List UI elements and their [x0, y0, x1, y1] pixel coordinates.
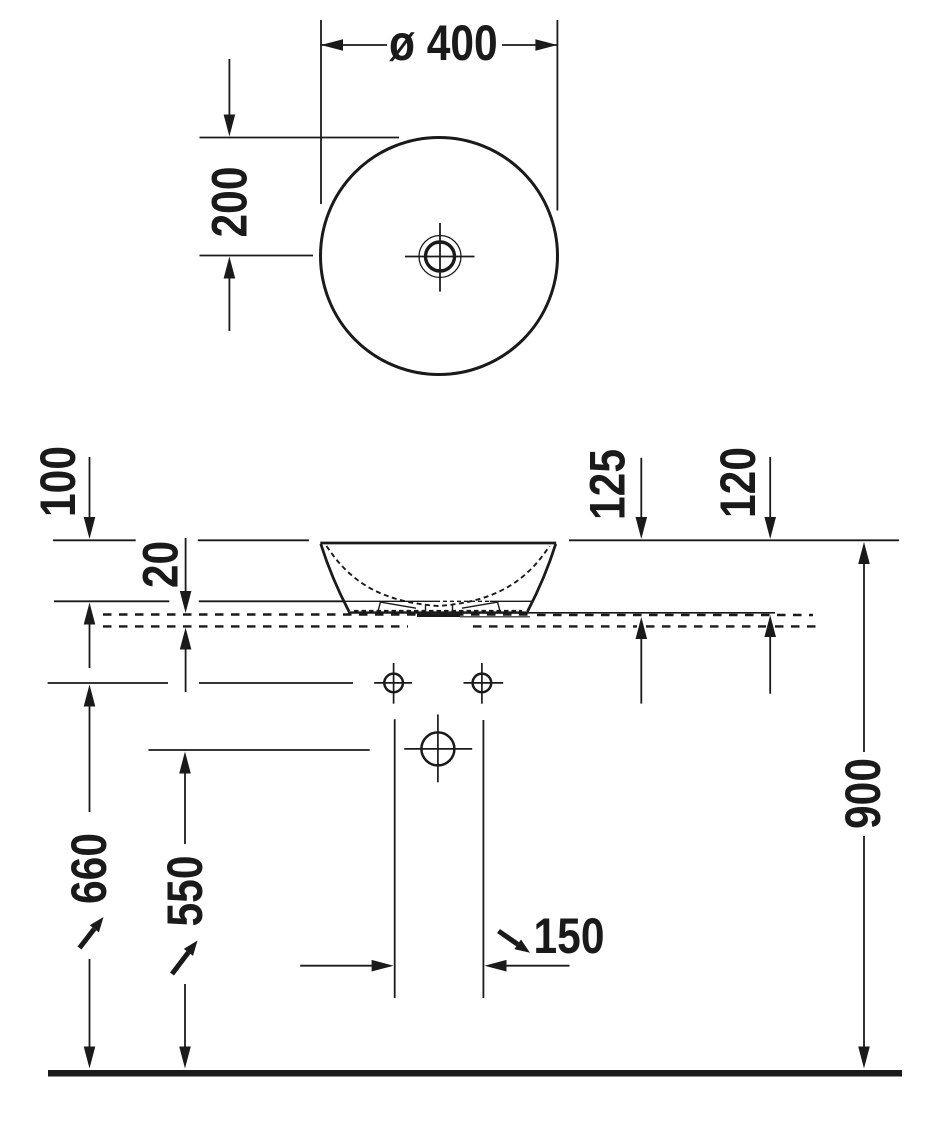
svg-text:660: 660 [60, 833, 116, 904]
svg-text:ø 400: ø 400 [389, 14, 498, 70]
svg-text:120: 120 [710, 447, 766, 518]
svg-text:150: 150 [534, 907, 605, 963]
svg-text:550: 550 [156, 856, 212, 927]
svg-text:20: 20 [132, 541, 188, 588]
svg-text:100: 100 [29, 446, 85, 517]
svg-text:900: 900 [834, 758, 890, 829]
svg-text:125: 125 [579, 449, 635, 520]
svg-text:200: 200 [201, 167, 257, 238]
